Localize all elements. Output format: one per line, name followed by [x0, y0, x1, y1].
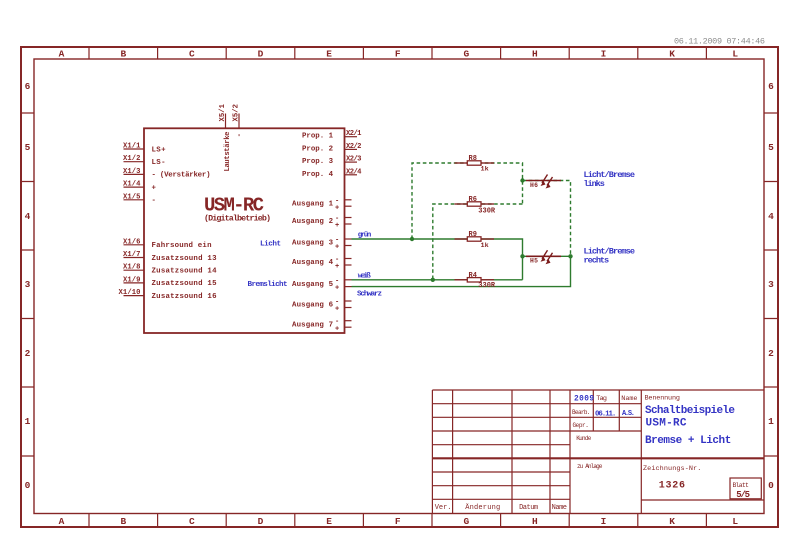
- pins Ausgang 3 -/+: [292, 237, 352, 252]
- svg-text:1k: 1k: [481, 165, 489, 173]
- svg-text:Schwarz: Schwarz: [357, 290, 382, 298]
- svg-text:Ausgang 1: Ausgang 1: [292, 200, 334, 208]
- wire dashed R8 top branch: [412, 163, 523, 239]
- IC U1 USM-RC body: [144, 128, 345, 333]
- pin X2/2 (Prop. 2): [302, 143, 362, 154]
- resistor R8 1k: [455, 155, 495, 173]
- svg-text:R6: R6: [469, 196, 477, 204]
- wire net weiss: Ausgang 5- to R4: [352, 279, 523, 281]
- svg-text:-: -: [152, 197, 156, 205]
- pin X1/7 (Zusatzsound 13): [123, 251, 217, 263]
- svg-text:Name: Name: [552, 504, 567, 512]
- frame column ticks: [89, 47, 706, 527]
- LED H5: [526, 250, 561, 264]
- wire dashed R6 branch: [433, 204, 523, 280]
- svg-text:X5/2: X5/2: [233, 104, 241, 122]
- svg-text:Ausgang 5: Ausgang 5: [292, 281, 334, 289]
- svg-text:+: +: [335, 285, 339, 293]
- pin X1/10 (Zusatzsound 16): [119, 289, 218, 301]
- svg-text:06.11.2009 07:44:46: 06.11.2009 07:44:46: [674, 37, 765, 47]
- pin X1/1 (LS+): [123, 143, 166, 155]
- title block grid: [432, 390, 764, 514]
- frame row numbers left: [25, 81, 31, 491]
- svg-text:X1/3: X1/3: [123, 168, 141, 176]
- frame row numbers right: [768, 81, 774, 491]
- svg-text:Änderung: Änderung: [465, 503, 500, 512]
- svg-text:X1/8: X1/8: [123, 264, 141, 272]
- svg-text:+: +: [335, 222, 339, 230]
- pin X1/2 (LS-): [123, 155, 166, 167]
- svg-text:Bearb.: Bearb.: [572, 409, 591, 416]
- svg-text:+: +: [335, 306, 339, 314]
- svg-text:X1/9: X1/9: [123, 276, 141, 284]
- svg-text:Datum: Datum: [519, 504, 538, 512]
- svg-text:L: L: [732, 516, 738, 527]
- svg-text:Zusatzsound 13: Zusatzsound 13: [152, 255, 218, 263]
- svg-text:links: links: [584, 179, 605, 189]
- svg-text:A: A: [59, 49, 65, 60]
- svg-text:C: C: [189, 516, 195, 527]
- svg-text:grün: grün: [358, 231, 372, 239]
- pin X1/4 (+): [123, 181, 157, 193]
- svg-text:Ausgang 2: Ausgang 2: [292, 218, 333, 226]
- svg-text:Prop. 2: Prop. 2: [302, 145, 333, 153]
- svg-text:330R: 330R: [478, 208, 496, 216]
- svg-text:USM-RC: USM-RC: [646, 418, 687, 430]
- pins Ausgang 5 -/+: [292, 277, 352, 292]
- svg-text:0: 0: [25, 480, 31, 491]
- svg-text:Ver.: Ver.: [435, 504, 452, 512]
- svg-text:Prop. 3: Prop. 3: [302, 158, 334, 166]
- pin X1/9 (Zusatzsound 15): [123, 276, 217, 288]
- pins Ausgang 1 -/+: [292, 197, 352, 212]
- pin X1/5 (-): [123, 193, 156, 205]
- svg-text:R4: R4: [469, 272, 477, 280]
- svg-text:X1/10: X1/10: [119, 289, 141, 297]
- resistor R9 1k: [455, 231, 495, 250]
- svg-text:Zusatzsound 16: Zusatzsound 16: [152, 293, 218, 301]
- svg-text:X2/3: X2/3: [346, 156, 362, 164]
- svg-text:Ausgang 4: Ausgang 4: [292, 259, 334, 267]
- svg-text:1: 1: [25, 416, 31, 427]
- svg-text:Name: Name: [621, 395, 637, 403]
- svg-text:G: G: [463, 516, 469, 527]
- pin X2/4 (Prop. 4): [302, 168, 362, 179]
- svg-text:I: I: [601, 516, 607, 527]
- svg-text:-: -: [236, 133, 244, 137]
- svg-text:LS-: LS-: [152, 159, 166, 167]
- svg-text:5/5: 5/5: [736, 490, 750, 500]
- net label Licht/Bremse rechts: [584, 247, 636, 266]
- wire net Schwarz: Ausgang 5+ to right vertical: [352, 256, 571, 286]
- svg-text:Bremslicht: Bremslicht: [248, 281, 288, 289]
- svg-text:X1/5: X1/5: [123, 193, 141, 201]
- svg-text:H: H: [532, 516, 538, 527]
- svg-text:6: 6: [25, 81, 31, 92]
- svg-text:Licht: Licht: [260, 240, 281, 248]
- wire dashed H6 row and right vertical: [523, 181, 571, 257]
- junction H5 branch at (522.5,256.3): [520, 254, 524, 258]
- frame column letters top: [59, 49, 739, 60]
- svg-text:K: K: [669, 516, 675, 527]
- svg-text:G: G: [463, 49, 469, 60]
- svg-text:Tag: Tag: [596, 395, 607, 403]
- pin X5/2 (-, top): [233, 104, 244, 137]
- svg-text:5: 5: [25, 142, 31, 153]
- svg-text:1326: 1326: [659, 481, 685, 492]
- svg-text:2: 2: [768, 348, 774, 359]
- svg-text:H6: H6: [530, 182, 538, 189]
- svg-text:X2/2: X2/2: [346, 143, 362, 151]
- svg-text:(Digitalbetrieb): (Digitalbetrieb): [204, 214, 271, 224]
- svg-text:X1/2: X1/2: [123, 155, 141, 163]
- svg-text:X1/1: X1/1: [123, 143, 141, 151]
- junction H6 branch at (522.5,180.5): [520, 178, 524, 182]
- LED H6: [526, 175, 561, 189]
- frame column letters bottom: [59, 516, 739, 527]
- svg-text:X2/4: X2/4: [346, 168, 362, 176]
- svg-text:X2/1: X2/1: [346, 130, 362, 138]
- pin X2/3 (Prop. 3): [302, 156, 362, 167]
- svg-text:+: +: [335, 263, 339, 271]
- svg-text:F: F: [395, 49, 401, 60]
- svg-text:B: B: [120, 516, 126, 527]
- svg-text:+: +: [335, 244, 339, 252]
- svg-text:3: 3: [25, 279, 31, 290]
- pins Ausgang 7 -/+: [292, 318, 352, 333]
- svg-text:06.11.: 06.11.: [595, 410, 616, 418]
- pin X1/3 (- Verstaerker): [123, 168, 211, 180]
- svg-text:4: 4: [25, 211, 31, 222]
- svg-text:H5: H5: [530, 258, 538, 265]
- svg-text:F: F: [395, 516, 401, 527]
- svg-text:Prop. 4: Prop. 4: [302, 171, 334, 179]
- svg-text:- (Verstärker): - (Verstärker): [152, 172, 211, 180]
- svg-text:D: D: [258, 49, 264, 60]
- junction on weiss wire at x=432.8: [431, 278, 435, 282]
- svg-text:X1/7: X1/7: [123, 251, 141, 259]
- svg-text:0: 0: [768, 480, 774, 491]
- svg-text:2: 2: [25, 348, 31, 359]
- svg-text:weiß: weiß: [358, 273, 371, 281]
- junction right vertical at (570.5,256.3): [568, 254, 572, 258]
- svg-text:Fahrsound ein: Fahrsound ein: [152, 242, 212, 250]
- svg-text:K: K: [669, 49, 675, 60]
- svg-text:H: H: [532, 49, 538, 60]
- svg-text:X1/6: X1/6: [123, 238, 141, 246]
- svg-text:A.S.: A.S.: [622, 410, 635, 418]
- svg-text:+: +: [335, 325, 339, 333]
- svg-text:X5/1: X5/1: [219, 103, 227, 121]
- svg-text:Lautstärke: Lautstärke: [224, 132, 232, 172]
- svg-text:Prop. 1: Prop. 1: [302, 133, 334, 141]
- svg-text:B: B: [120, 49, 126, 60]
- svg-text:R8: R8: [469, 155, 477, 163]
- svg-text:D: D: [258, 516, 264, 527]
- svg-text:rechts: rechts: [584, 256, 610, 266]
- svg-text:3: 3: [768, 279, 774, 290]
- wire net gruen: Ausgang 3- to R9 to vertical: [352, 239, 523, 280]
- svg-text:Bremse + Licht: Bremse + Licht: [645, 435, 731, 447]
- svg-text:+: +: [152, 184, 157, 192]
- resistor R6 330R: [455, 196, 496, 216]
- svg-text:zu Anlage: zu Anlage: [577, 463, 603, 470]
- svg-text:2009: 2009: [574, 395, 594, 403]
- svg-text:Zusatzsound 15: Zusatzsound 15: [152, 280, 218, 288]
- svg-text:330R: 330R: [478, 282, 496, 290]
- svg-text:E: E: [326, 49, 332, 60]
- svg-text:Ausgang 6: Ausgang 6: [292, 302, 334, 310]
- svg-text:I: I: [601, 49, 607, 60]
- svg-text:Gepr.: Gepr.: [573, 422, 589, 429]
- svg-text:1k: 1k: [481, 242, 489, 250]
- svg-text:X1/4: X1/4: [123, 181, 141, 189]
- pin X1/6 (Fahrsound ein): [123, 238, 212, 250]
- svg-text:LS+: LS+: [152, 146, 167, 154]
- svg-text:C: C: [189, 49, 195, 60]
- svg-text:Schaltbeispiele: Schaltbeispiele: [645, 405, 735, 417]
- svg-text:Benennung: Benennung: [645, 395, 681, 403]
- Blatt box: [730, 478, 761, 499]
- svg-text:L: L: [732, 49, 738, 60]
- svg-text:1: 1: [768, 416, 774, 427]
- net label Licht/Bremse links: [584, 170, 636, 189]
- svg-text:R9: R9: [469, 231, 477, 239]
- svg-text:Zusatzsound 14: Zusatzsound 14: [152, 268, 218, 276]
- svg-text:6: 6: [768, 81, 774, 92]
- wire H5 output row (solid): [523, 255, 571, 257]
- svg-text:5: 5: [768, 142, 774, 153]
- pins Ausgang 4 -/+: [292, 256, 352, 271]
- pins Ausgang 2 -/+: [292, 215, 352, 230]
- frame row ticks: [21, 113, 778, 456]
- pin X5/1 (Lautstaerke, top): [219, 103, 232, 171]
- svg-text:A: A: [59, 516, 65, 527]
- resistor R4 330R: [455, 272, 496, 290]
- svg-text:+: +: [335, 204, 339, 212]
- svg-text:Blatt: Blatt: [733, 482, 749, 489]
- svg-text:Ausgang 7: Ausgang 7: [292, 321, 333, 329]
- svg-text:4: 4: [768, 211, 774, 222]
- pin X1/8 (Zusatzsound 14): [123, 264, 217, 276]
- junction on gruen wire at x=412: [410, 237, 414, 241]
- svg-text:E: E: [326, 516, 332, 527]
- pins Ausgang 6 -/+: [292, 299, 352, 314]
- svg-text:Zeichnungs-Nr.: Zeichnungs-Nr.: [643, 465, 701, 473]
- svg-text:Ausgang 3: Ausgang 3: [292, 240, 334, 248]
- pin X2/1 (Prop. 1): [302, 130, 362, 141]
- svg-text:Kunde: Kunde: [576, 435, 591, 442]
